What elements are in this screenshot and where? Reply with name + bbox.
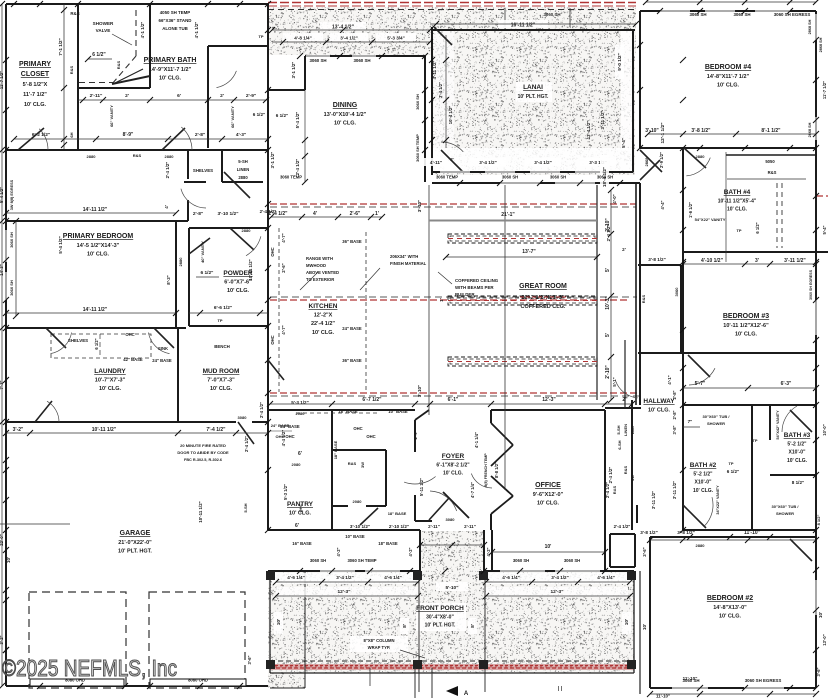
svg-text:10': 10': [276, 619, 282, 625]
svg-text:3'-4 1/2": 3'-4 1/2": [551, 575, 569, 580]
svg-text:2880: 2880: [696, 154, 706, 159]
svg-text:4'-7 1/4": 4'-7 1/4": [470, 482, 475, 498]
svg-text:3'-6": 3'-6": [816, 667, 821, 676]
svg-text:6H: 6H: [69, 132, 74, 137]
svg-text:R&S: R&S: [641, 294, 646, 303]
svg-text:16'-11 1/2": 16'-11 1/2": [511, 23, 536, 29]
svg-text:2880: 2880: [238, 175, 248, 180]
svg-text:3060 SH: 3060 SH: [564, 558, 580, 563]
svg-text:10' CLG.: 10' CLG.: [787, 458, 808, 464]
svg-text:7'-1 1/2": 7'-1 1/2": [58, 38, 63, 56]
svg-text:4'-6 1/4": 4'-6 1/4": [502, 575, 520, 580]
svg-text:4'-11 1/2": 4'-11 1/2": [432, 61, 437, 80]
svg-text:4'-6 1/4": 4'-6 1/4": [287, 575, 305, 580]
svg-text:13'-4 1/2": 13'-4 1/2": [586, 121, 591, 139]
svg-text:2'-8": 2'-8": [672, 390, 677, 399]
svg-text:24" BASE: 24" BASE: [152, 358, 172, 363]
svg-text:7'-4 1/2": 7'-4 1/2": [206, 427, 226, 433]
svg-text:2": 2": [622, 397, 628, 403]
svg-text:OHC: OHC: [353, 426, 362, 431]
svg-text:3060 SH: 3060 SH: [513, 558, 529, 563]
svg-text:2'-6": 2'-6": [281, 263, 286, 272]
svg-text:3W 8(8) EGRESS: 3W 8(8) EGRESS: [10, 179, 14, 210]
svg-text:6': 6': [177, 93, 181, 99]
svg-text:6 1/2": 6 1/2": [253, 112, 265, 117]
svg-text:3'-6": 3'-6": [247, 655, 252, 664]
svg-text:5'-1": 5'-1": [612, 377, 617, 386]
svg-text:6 1/2": 6 1/2": [727, 469, 739, 474]
svg-text:OHC: OHC: [366, 434, 375, 439]
svg-text:3'-10": 3'-10": [645, 128, 659, 134]
svg-text:30"X60" TUB /: 30"X60" TUB /: [772, 504, 800, 509]
svg-text:4'-4": 4'-4": [660, 200, 665, 209]
svg-text:10' CLG.: 10' CLG.: [210, 386, 233, 392]
svg-text:WITH BEAMS PER: WITH BEAMS PER: [455, 285, 494, 290]
svg-text:PRIMARY: PRIMARY: [19, 61, 51, 68]
svg-text:4'-10 1/2": 4'-10 1/2": [701, 258, 724, 264]
svg-text:LAUNDRY: LAUNDRY: [94, 368, 126, 375]
svg-text:PRIMARY BEDROOM: PRIMARY BEDROOM: [63, 233, 134, 240]
svg-text:3080: 3080: [446, 517, 456, 522]
svg-text:11'-10": 11'-10": [656, 694, 670, 698]
svg-text:R&S: R&S: [623, 465, 628, 474]
svg-text:4'-2": 4'-2": [408, 547, 413, 556]
svg-text:12'-1 1/2": 12'-1 1/2": [660, 122, 666, 143]
svg-text:4'-7": 4'-7": [281, 325, 286, 334]
svg-text:4'-0": 4'-0": [612, 194, 617, 203]
svg-text:7'-0"X7'-3": 7'-0"X7'-3": [207, 378, 235, 384]
svg-text:13'-0"X10'-4 1/2": 13'-0"X10'-4 1/2": [324, 112, 367, 118]
svg-text:5'-4 1/2": 5'-4 1/2": [295, 112, 300, 129]
svg-text:21'-0"X22'-0": 21'-0"X22'-0": [118, 540, 152, 546]
svg-text:3060 SH: 3060 SH: [310, 558, 326, 563]
svg-text:10'-11 1/2"X5'-4": 10'-11 1/2"X5'-4": [718, 199, 757, 205]
svg-text:8 1/2": 8 1/2": [792, 480, 804, 485]
svg-text:GREAT ROOM: GREAT ROOM: [519, 283, 567, 290]
svg-text:BEDROOM #4: BEDROOM #4: [705, 64, 751, 71]
svg-text:5-SH: 5-SH: [616, 425, 621, 434]
svg-text:3060 SH TEMP: 3060 SH TEMP: [415, 134, 420, 162]
svg-text:10' CLG.: 10' CLG.: [443, 471, 464, 477]
svg-text:4050 SH TEMP: 4050 SH TEMP: [160, 10, 191, 15]
svg-text:18" BASE: 18" BASE: [378, 541, 398, 546]
svg-text:3060 SH: 3060 SH: [9, 232, 14, 248]
svg-text:10': 10': [642, 624, 647, 630]
svg-text:22'-4 1/2": 22'-4 1/2": [311, 321, 335, 327]
svg-text:2880: 2880: [165, 154, 175, 159]
svg-text:8'-1 1/2": 8'-1 1/2": [761, 128, 781, 134]
svg-text:BUILDER: BUILDER: [455, 292, 475, 297]
svg-text:3'-11 1/2": 3'-11 1/2": [672, 481, 677, 499]
svg-text:TP: TP: [728, 461, 733, 466]
svg-text:2'-4 1/2": 2'-4 1/2": [606, 225, 611, 242]
svg-text:18" BASE: 18" BASE: [338, 409, 358, 414]
svg-text:3'-4 1/2": 3'-4 1/2": [479, 160, 497, 165]
svg-text:3060 SH: 3060 SH: [415, 94, 420, 110]
svg-text:4'-3": 4'-3": [236, 132, 246, 138]
svg-text:R&S: R&S: [133, 153, 142, 158]
svg-text:8'-3": 8'-3": [166, 275, 171, 284]
svg-text:R&S: R&S: [70, 11, 79, 16]
svg-text:10': 10': [624, 619, 630, 625]
svg-text:11'-7 1/2": 11'-7 1/2": [0, 71, 4, 89]
svg-text:6'-1": 6'-1": [448, 397, 459, 403]
svg-text:5'-4": 5'-4": [621, 138, 626, 148]
svg-text:3060 TEMP: 3060 TEMP: [280, 175, 302, 180]
svg-text:66" VANITY: 66" VANITY: [230, 106, 235, 128]
svg-text:14'-11 1/2": 14'-11 1/2": [83, 207, 108, 213]
svg-text:14'-3": 14'-3": [0, 264, 4, 275]
svg-text:3'-11 1/2": 3'-11 1/2": [784, 258, 806, 264]
svg-text:2868 SH: 2868 SH: [808, 122, 812, 137]
svg-text:©2025 NEFMLS, Inc: ©2025 NEFMLS, Inc: [2, 655, 177, 681]
svg-text:24" BASE: 24" BASE: [342, 326, 362, 331]
svg-text:34"X22" VANITY: 34"X22" VANITY: [716, 485, 720, 515]
svg-text:12'-3": 12'-3": [542, 397, 556, 403]
svg-text:5': 5': [605, 268, 611, 272]
svg-text:5'-4 1/2": 5'-4 1/2": [0, 187, 4, 203]
svg-text:OHC: OHC: [298, 503, 303, 512]
svg-text:6'-6 1/2": 6'-6 1/2": [214, 305, 232, 311]
svg-text:14'-8"X13'-0": 14'-8"X13'-0": [713, 605, 747, 611]
svg-text:A: A: [464, 691, 469, 697]
svg-text:RAS: RAS: [348, 461, 357, 466]
svg-text:ALONE TUB: ALONE TUB: [162, 26, 188, 31]
svg-text:10'-7"X7'-3": 10'-7"X7'-3": [95, 378, 126, 384]
svg-text:10' CLG.: 10' CLG.: [727, 207, 748, 213]
svg-text:4'-11": 4'-11": [430, 160, 442, 165]
svg-text:FINISH MATERIAL: FINISH MATERIAL: [390, 261, 427, 266]
svg-text:3W: 3W: [630, 475, 635, 481]
svg-text:24" BASE: 24" BASE: [271, 423, 290, 428]
svg-text:4': 4': [164, 205, 169, 209]
svg-text:10' CLG.: 10' CLG.: [87, 252, 110, 258]
svg-text:BEDROOM #2: BEDROOM #2: [707, 595, 753, 602]
svg-text:3'-10": 3'-10": [417, 200, 422, 212]
svg-text:2080: 2080: [353, 499, 363, 504]
svg-text:10" BASE: 10" BASE: [388, 409, 408, 414]
svg-text:4'-1 1/2": 4'-1 1/2": [140, 22, 145, 39]
svg-text:21’-2 1/2"X18’-3": 21’-2 1/2"X18’-3": [521, 295, 565, 301]
svg-text:54"X42" VANITY: 54"X42" VANITY: [776, 410, 780, 440]
svg-text:6 1/2": 6 1/2": [755, 222, 760, 233]
svg-text:18" BASE: 18" BASE: [333, 440, 338, 459]
svg-text:10': 10': [545, 544, 552, 550]
svg-text:8'-9": 8'-9": [123, 132, 134, 138]
svg-text:2'-9 1/2": 2'-9 1/2": [659, 152, 664, 168]
svg-text:10' CLG.: 10' CLG.: [648, 408, 671, 414]
svg-text:R&S: R&S: [116, 60, 121, 69]
svg-text:2880: 2880: [178, 257, 183, 267]
svg-text:DOOR TO ABIDE BY CODE: DOOR TO ABIDE BY CODE: [177, 450, 229, 455]
svg-text:2080: 2080: [296, 411, 306, 416]
svg-text:6'-0"X7'-6": 6'-0"X7'-6": [224, 280, 252, 286]
svg-text:4'-2": 4'-2": [486, 547, 491, 556]
svg-text:2'-11": 2'-11": [428, 524, 440, 529]
svg-text:3060: 3060: [674, 287, 679, 297]
svg-text:10' CLG.: 10' CLG.: [312, 330, 335, 336]
svg-text:3'-4 1/2": 3'-4 1/2": [534, 160, 552, 165]
svg-text:3'-6": 3'-6": [642, 547, 647, 556]
svg-text:5'-3 1/2": 5'-3 1/2": [291, 400, 309, 405]
svg-text:BENCH: BENCH: [214, 344, 230, 349]
svg-text:10'-4 1/2": 10'-4 1/2": [448, 106, 453, 124]
svg-text:SHOWER: SHOWER: [93, 21, 114, 26]
svg-text:3'-8 1/2": 3'-8 1/2": [640, 530, 658, 535]
svg-text:1': 1': [375, 211, 379, 217]
svg-text:8': 8': [402, 624, 408, 628]
svg-text:4'-7": 4'-7": [281, 233, 286, 242]
svg-text:5'-3 1/2": 5'-3 1/2": [283, 484, 288, 500]
svg-text:RANGE WITH: RANGE WITH: [306, 256, 333, 261]
svg-text:14'-8"X11'-7 1/2": 14'-8"X11'-7 1/2": [707, 74, 750, 80]
svg-text:2'-4 1/2": 2'-4 1/2": [614, 524, 631, 529]
svg-text:2': 2': [450, 157, 453, 162]
svg-text:2880: 2880: [631, 426, 635, 434]
svg-text:10" BASE: 10" BASE: [345, 534, 365, 539]
svg-text:3'-8 1/2": 3'-8 1/2": [648, 257, 666, 262]
svg-text:LINEN: LINEN: [237, 167, 250, 172]
svg-text:10' CLG.: 10' CLG.: [99, 386, 122, 392]
svg-text:4'-1 1/4": 4'-1 1/4": [474, 432, 479, 448]
svg-text:5'-3 3/4": 5'-3 3/4": [387, 36, 405, 41]
svg-text:5'-7": 5'-7": [695, 381, 706, 387]
svg-text:TP: TP: [752, 438, 757, 443]
svg-text:10' CLG.: 10' CLG.: [693, 488, 714, 494]
svg-text:10' CLG.: 10' CLG.: [537, 501, 560, 507]
svg-text:2'-10 1/2": 2'-10 1/2": [389, 524, 409, 529]
svg-text:2'-4 1/2": 2'-4 1/2": [295, 159, 300, 176]
svg-text:3W: 3W: [360, 462, 365, 468]
svg-text:14'-9"X11'-7 1/2": 14'-9"X11'-7 1/2": [149, 67, 192, 73]
svg-text:10': 10': [6, 557, 11, 563]
svg-text:54"X22" VANITY: 54"X22" VANITY: [695, 217, 726, 222]
svg-text:6 1/2": 6 1/2": [94, 338, 99, 349]
svg-text:1'-6 1/2": 1'-6 1/2": [688, 202, 693, 218]
svg-text:LANAI: LANAI: [523, 84, 543, 91]
svg-text:3'-4 1/2": 3'-4 1/2": [438, 82, 443, 98]
svg-text:10' CLG.: 10' CLG.: [159, 76, 182, 82]
svg-text:OHC: OHC: [270, 247, 275, 256]
svg-text:12'-3": 12'-3": [550, 589, 563, 595]
svg-text:BEDROOM #3: BEDROOM #3: [723, 313, 769, 320]
svg-text:TP: TP: [736, 228, 741, 233]
svg-text:5'-10": 5'-10": [445, 585, 458, 591]
svg-text:X10'-0": X10'-0": [789, 450, 807, 456]
svg-text:MUD ROOM: MUD ROOM: [203, 368, 240, 375]
svg-text:COFFERED CEILING: COFFERED CEILING: [455, 278, 499, 283]
svg-text:9'-6"X12'-0": 9'-6"X12'-0": [533, 492, 564, 498]
svg-text:5': 5': [605, 333, 611, 337]
svg-text:1': 1': [439, 298, 444, 302]
svg-text:2'-4 1/2": 2'-4 1/2": [244, 436, 249, 452]
svg-text:TP: TP: [258, 34, 263, 39]
svg-text:2868: 2868: [644, 157, 649, 167]
svg-text:3060 SH EGRESS: 3060 SH EGRESS: [809, 269, 813, 300]
svg-text:3060 SH: 3060 SH: [309, 58, 326, 63]
svg-text:10'-11 1/2"X12'-6": 10'-11 1/2"X12'-6": [723, 323, 769, 329]
svg-text:36" BASE: 36" BASE: [342, 358, 362, 363]
svg-text:6 1/2": 6 1/2": [92, 52, 106, 58]
svg-text:10' CLG.: 10' CLG.: [227, 288, 250, 294]
svg-text:10' PLT. HGT.: 10' PLT. HGT.: [118, 549, 152, 555]
svg-text:R&S: R&S: [69, 65, 74, 74]
svg-text:30'-4"X8'-0": 30'-4"X8'-0": [426, 615, 454, 621]
svg-text:16" BASE: 16" BASE: [292, 541, 312, 546]
svg-text:OHC: OHC: [125, 332, 134, 337]
svg-text:5'-4": 5'-4": [822, 225, 827, 234]
svg-text:6'-7 1/2": 6'-7 1/2": [362, 397, 382, 403]
svg-text:3'-4 1/2": 3'-4 1/2": [340, 36, 358, 41]
svg-text:14'-11 1/2": 14'-11 1/2": [83, 307, 108, 313]
svg-text:3060 TEMP: 3060 TEMP: [436, 175, 458, 180]
svg-text:2'-8": 2'-8": [195, 132, 205, 138]
svg-text:LINEN: LINEN: [623, 424, 628, 436]
svg-text:2'-11": 2'-11": [464, 524, 476, 529]
svg-text:3'-4 1/2": 3'-4 1/2": [336, 575, 354, 580]
svg-text:TP: TP: [217, 318, 222, 323]
svg-text:MWHOOD: MWHOOD: [306, 263, 326, 268]
svg-text:PRIMARY BATH: PRIMARY BATH: [144, 57, 197, 64]
svg-text:5'-2 1/2": 5'-2 1/2": [693, 472, 713, 478]
svg-text:4'-1 1/2": 4'-1 1/2": [194, 22, 199, 39]
svg-text:21'-1": 21'-1": [501, 212, 515, 218]
svg-text:VALVE: VALVE: [96, 28, 111, 33]
svg-text:BATH #2: BATH #2: [690, 462, 717, 469]
svg-text:2080: 2080: [292, 462, 302, 467]
svg-text:KITCHEN: KITCHEN: [309, 303, 338, 310]
svg-text:3'-11 1/2": 3'-11 1/2": [651, 491, 656, 509]
svg-text:18" BASE: 18" BASE: [388, 511, 407, 516]
svg-text:2'-8": 2'-8": [672, 410, 677, 419]
svg-text:3'-10 1/2": 3'-10 1/2": [217, 211, 238, 217]
svg-text:3'-8 1/2": 3'-8 1/2": [691, 128, 711, 134]
svg-text:SHELVES: SHELVES: [193, 168, 213, 173]
svg-text:2'-4 1/2": 2'-4 1/2": [259, 402, 264, 418]
svg-text:OHC: OHC: [285, 434, 294, 439]
svg-text:9'-0 1/2": 9'-0 1/2": [617, 53, 622, 71]
svg-text:8 1/2": 8 1/2": [816, 515, 821, 526]
svg-text:ABOVE VENTED: ABOVE VENTED: [306, 270, 339, 275]
svg-text:2880: 2880: [87, 154, 97, 159]
svg-text:3060 SH EGRESS: 3060 SH EGRESS: [745, 678, 782, 683]
svg-text:3'-1 1/2": 3'-1 1/2": [270, 152, 275, 169]
svg-text:3060 SH EGRESS: 3060 SH EGRESS: [774, 12, 811, 17]
svg-text:10' CLG.: 10' CLG.: [719, 614, 742, 620]
svg-text:X10'-0": X10'-0": [695, 480, 713, 486]
svg-text:RAS: RAS: [612, 485, 617, 494]
svg-text:OFFICE: OFFICE: [535, 482, 561, 489]
svg-text:□: □: [392, 47, 395, 53]
svg-text:10' CLG.: 10' CLG.: [735, 332, 758, 338]
svg-text:2'-6": 2'-6": [350, 211, 361, 217]
svg-text:8(8) FRENCH TEMP: 8(8) FRENCH TEMP: [484, 453, 488, 487]
svg-text:12'-2"X: 12'-2"X: [314, 313, 333, 319]
svg-text:SHOWER: SHOWER: [707, 421, 725, 426]
svg-text:4'-1": 4'-1": [667, 375, 672, 384]
svg-text:SHOWER: SHOWER: [776, 511, 794, 516]
svg-text:2'-4 1/2": 2'-4 1/2": [260, 209, 277, 214]
svg-text:3060 SH: 3060 SH: [597, 175, 613, 180]
svg-text:8"X8" COLUMN: 8"X8" COLUMN: [364, 638, 395, 643]
svg-text:SHELVES: SHELVES: [68, 338, 88, 343]
svg-text:3060 SH: 3060 SH: [550, 175, 566, 180]
svg-text:20 MINUTE FIRE RATED: 20 MINUTE FIRE RATED: [180, 443, 226, 448]
svg-text:10'-11 1/2": 10'-11 1/2": [92, 427, 117, 433]
svg-text:2'-9": 2'-9": [246, 93, 256, 99]
svg-text:66" VANITY: 66" VANITY: [109, 105, 114, 127]
svg-text:WRAP TYP.: WRAP TYP.: [368, 645, 391, 650]
svg-text:FOYER: FOYER: [442, 453, 465, 460]
svg-text:11'-7 1/2": 11'-7 1/2": [822, 81, 827, 99]
svg-text:SINK: SINK: [158, 346, 168, 351]
svg-text:8080 OHD: 8080 OHD: [188, 678, 208, 683]
svg-text:13'-7": 13'-7": [522, 249, 536, 255]
svg-text:COFFERED CLG.: COFFERED CLG.: [521, 304, 566, 310]
svg-text:BATH #4: BATH #4: [724, 189, 751, 196]
svg-text:3'-2": 3'-2": [0, 635, 4, 644]
svg-text:6': 6': [295, 523, 299, 529]
svg-text:3'-8": 3'-8": [672, 425, 677, 434]
svg-text:2'-4 1/2": 2'-4 1/2": [608, 467, 613, 484]
svg-text:10' CLG.: 10' CLG.: [334, 121, 357, 127]
svg-text:2880: 2880: [242, 228, 252, 233]
svg-text:2': 2': [125, 93, 129, 99]
svg-text:2868 SH: 2868 SH: [819, 37, 823, 52]
svg-text:OHC: OHC: [270, 335, 275, 344]
svg-text:3060 SH: 3060 SH: [543, 12, 560, 17]
svg-text:GARAGE: GARAGE: [120, 530, 151, 537]
svg-text:5050: 5050: [765, 159, 775, 164]
svg-text:10' PLT. HGT.: 10' PLT. HGT.: [518, 94, 549, 100]
svg-text:2'-4 1/2": 2'-4 1/2": [165, 162, 170, 179]
svg-text:3'-10": 3'-10": [417, 385, 422, 397]
svg-text:CLOSET: CLOSET: [21, 71, 50, 78]
svg-text:3060 SH: 3060 SH: [9, 280, 14, 296]
svg-text:2': 2': [622, 247, 626, 252]
svg-text:2': 2': [220, 93, 224, 99]
svg-text:2'-4 1/2": 2'-4 1/2": [605, 482, 610, 498]
svg-text:6 1/2": 6 1/2": [201, 270, 214, 276]
svg-text:2'-8": 2'-8": [193, 211, 203, 217]
svg-text:3080: 3080: [238, 415, 248, 420]
svg-text:HALLWAY: HALLWAY: [643, 398, 675, 405]
svg-text:3060 SH: 3060 SH: [353, 58, 370, 63]
svg-text:11'-7 1/2": 11'-7 1/2": [23, 92, 47, 98]
svg-text:5-SH: 5-SH: [243, 503, 248, 512]
svg-text:40" VANITY: 40" VANITY: [200, 241, 205, 263]
svg-text:6 1/2": 6 1/2": [276, 113, 288, 118]
svg-text:5'-2 1/2": 5'-2 1/2": [787, 442, 807, 448]
svg-text:3': 3': [755, 258, 759, 264]
svg-text:36" BASE: 36" BASE: [342, 239, 362, 244]
svg-text:10' CLG.: 10' CLG.: [717, 83, 740, 89]
svg-text:3060 SH: 3060 SH: [733, 12, 750, 17]
svg-text:3'-2": 3'-2": [13, 427, 24, 433]
svg-text:3060 SH TEMP: 3060 SH TEMP: [347, 558, 376, 563]
svg-text:42" BASE: 42" BASE: [123, 357, 143, 362]
svg-text:11'-10": 11'-10": [744, 530, 761, 536]
svg-text:4': 4': [313, 211, 317, 217]
svg-text:3060 SH: 3060 SH: [502, 175, 518, 180]
svg-text:2'-9": 2'-9": [413, 430, 418, 439]
svg-text:10' CLG.: 10' CLG.: [24, 102, 47, 108]
svg-text:POWDER: POWDER: [223, 270, 253, 277]
svg-text:10'-3": 10'-3": [605, 296, 611, 310]
svg-text:2'-10": 2'-10": [605, 365, 611, 379]
svg-text:6'-3": 6'-3": [781, 381, 792, 387]
svg-text:6': 6': [298, 451, 302, 457]
